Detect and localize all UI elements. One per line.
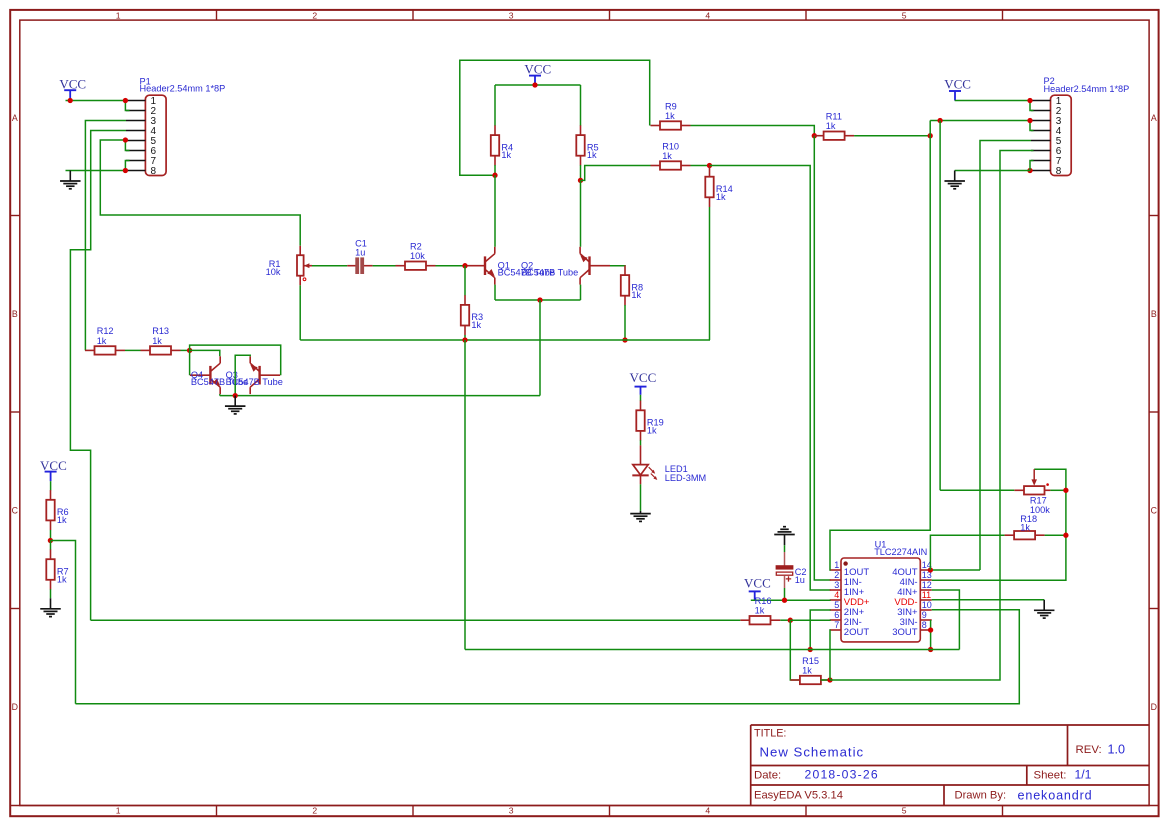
svg-text:EasyEDA V5.3.14: EasyEDA V5.3.14 [754,790,843,802]
svg-text:Header2.54mm 1*8P: Header2.54mm 1*8P [140,83,226,93]
svg-text:1u: 1u [795,575,805,585]
op-amp U1 body [841,558,920,642]
svg-text:1k: 1k [501,150,511,160]
wire R2 to Q1 base junction [436,265,466,267]
wire Q1 emitter to rail [494,285,496,300]
junction dots P2 [1027,98,1032,103]
wire R7 top [50,541,52,550]
wire loop to Q3 base [190,345,281,375]
transistor Q4 [209,366,211,385]
junction dots P1 [68,98,73,103]
wire R3 bottom to rail [464,335,466,340]
svg-text:D: D [1151,702,1157,712]
svg-text:1k: 1k [587,150,597,160]
junction dot R8 bottom [622,337,627,342]
ground (P2 pin8) [954,171,956,182]
op-amp U1 right pin leads [920,569,931,571]
title block outline [751,725,1149,806]
svg-text:B: B [1151,309,1157,319]
svg-text:R2: R2 [410,242,422,252]
wire junction down to R17 [939,121,941,491]
led LED1 triangle [633,465,648,475]
junction dot R9/R11/U1 1IN- [812,133,817,138]
svg-text:1: 1 [834,560,839,570]
svg-text:7: 7 [834,620,839,630]
junction dot C2/VDD+ [782,598,787,603]
svg-text:2: 2 [312,10,317,20]
connector P2 pin stubs [1031,100,1051,102]
wire junction to Q2 emitter [580,180,582,246]
svg-text:R15: R15 [802,656,819,666]
svg-text:6: 6 [834,610,839,620]
svg-text:Header2.54mm 1*8P: Header2.54mm 1*8P [1044,84,1130,94]
resistor R16 body [750,616,771,624]
wire 4OUT right up to P2 pin5 [980,141,1031,571]
svg-text:R16: R16 [755,596,772,606]
svg-text:5: 5 [834,600,839,610]
svg-text:3: 3 [509,806,514,816]
svg-text:1k: 1k [802,665,812,675]
resistor R2 [396,265,406,267]
wire R14 junction to U1 1IN+ [710,166,831,591]
svg-text:1u: 1u [355,247,365,257]
junction dot 3IN- bottom net [928,647,933,652]
svg-text:TLC2274AIN: TLC2274AIN [874,547,927,557]
ground (LED1) [640,511,642,514]
svg-text:12: 12 [922,580,932,590]
wire junction down to R15 [790,620,800,680]
junction dot R16/2IN- [788,618,793,623]
wire R1 wiper to C1 [312,265,347,267]
svg-text:1k: 1k [57,574,67,584]
wire junction to pin10 net [50,541,75,704]
wire Q4 emitter to rail [219,394,221,396]
wire LED to ground [640,484,642,511]
svg-text:1k: 1k [152,336,162,346]
resistor R14 [709,167,711,177]
svg-text:enekoandrd: enekoandrd [1018,788,1093,802]
transistor Q2 [588,256,590,275]
svg-text:4: 4 [705,10,710,20]
resistor R15 [790,679,800,681]
junction dot R18 right [1063,533,1068,538]
resistor R9 [651,125,661,127]
svg-text:New Schematic: New Schematic [760,745,865,760]
svg-text:VCC: VCC [944,76,971,91]
svg-text:LED-3MM: LED-3MM [665,473,706,483]
wire P1 pin3 net to R12 [85,121,126,351]
svg-text:5: 5 [902,10,907,20]
wire top loop [460,60,650,175]
wire P2 pin7 to pin8 jog [1030,161,1034,171]
wire R5 junction jog to R10 [581,166,651,181]
svg-text:1: 1 [116,806,121,816]
wire emitter rail [495,299,581,301]
ground (current mirror) [234,396,236,407]
wire VCC to P2 pin1 [955,100,1030,102]
wire R12 to R13 [125,349,141,351]
wire U1 1OUT net up-over [830,121,930,571]
junction dot R17 right [1063,488,1068,493]
wire Q3/Q4 bottom rail [220,395,540,397]
wire R1 bottom to rail [299,285,301,340]
junction dot Q1 base [462,263,467,268]
wire C2 to VDD+ junction [784,588,786,600]
svg-text:2: 2 [834,570,839,580]
wire U1 3IN- down [930,620,932,650]
svg-text:10k: 10k [410,251,425,261]
junction dot Q4 base/collector [187,348,192,353]
transistor Q1 [484,256,486,275]
wire ground to C2 [784,545,786,552]
svg-text:BC547B Tube: BC547B Tube [226,377,283,387]
connector P1 pin stubs [126,100,145,102]
wire VCC to R19 [640,395,642,401]
wire R13 to Q4 junction [181,349,190,351]
svg-text:Date:: Date: [754,770,781,782]
svg-text:11: 11 [922,590,931,600]
led LED1 light arrows [649,467,654,472]
svg-text:A: A [1151,113,1157,123]
wire P1 pin5 net to R1 top [100,140,300,246]
wire U1 VDD- to ground [932,599,1044,601]
connector P2 body [1051,95,1072,175]
connector P1 body [145,95,166,175]
capacitor C2 [784,552,786,566]
junction dot R15/2OUT [827,677,832,682]
wire junction to U1 2IN- [790,619,830,621]
svg-text:5: 5 [902,806,907,816]
svg-text:1k: 1k [97,336,107,346]
op-amp U1 pin1 marker dot [843,561,847,565]
wire U1 3IN+ long net [76,610,1020,704]
svg-text:1: 1 [116,10,121,20]
wire C1 to R2 [373,265,396,267]
wire P1 pin7 to pin8 jog [125,161,129,171]
svg-text:REV:: REV: [1076,744,1102,756]
svg-text:R9: R9 [665,101,677,111]
wire R3 junction down to bottom net [464,340,466,650]
wire P1 pin8 to ground [66,170,126,172]
svg-text:1.0: 1.0 [1108,742,1126,756]
potentiometer R1 [299,246,301,255]
resistor R6 [50,490,52,500]
resistor R11 [814,135,824,137]
svg-text:3: 3 [834,580,839,590]
svg-text:1k: 1k [631,290,641,300]
wire R19 to LED [640,440,642,445]
wire Q2 collector to rail [580,285,582,300]
resistor R5 [580,125,582,135]
svg-text:TITLE:: TITLE: [754,728,786,740]
svg-text:4: 4 [705,806,710,816]
wire R4 top [494,85,496,126]
svg-text:3OUT: 3OUT [892,627,918,638]
wire R17 left from P2 pin3 net [940,489,1014,491]
wire P2 pin1 to pin2 jog [1030,101,1034,111]
wire R6 bottom to junction [50,530,52,541]
resistor R18 [1005,534,1015,536]
wire bottom net up to U1 4IN+ [932,590,960,650]
wire P1 pin1 to pin2 jog [125,101,129,111]
resistor R10 [651,165,661,167]
junction dot R3 bottom [462,337,467,342]
led LED1 anode lead [640,445,642,464]
wire junction up to U1 2OUT [829,630,832,680]
junction dot R11 right [928,133,933,138]
svg-text:R10: R10 [662,141,679,151]
op-amp U1 left pin leads [830,569,841,571]
wire R16 left lead [740,619,749,621]
wire junction down to R3 [464,266,466,296]
wire U1 4OUT net [932,569,980,571]
resistor R7 [50,550,52,560]
svg-text:C: C [1151,505,1158,515]
svg-text:10k: 10k [266,267,281,277]
led LED1 cathode lead [640,475,642,484]
capacitor C1 [347,265,356,267]
frame row ticks left [10,215,20,217]
wire P2 pin3 net [930,120,1031,122]
resistor R8 [624,265,626,275]
wire P1 pin5 to pin6 jog [125,140,129,151]
wire Q2 base to R8 [610,265,625,268]
wire U1 4IN- to R17/R18 right [932,469,1066,580]
svg-text:R13: R13 [152,326,169,336]
wire Q3 emitter link to ground junction [235,355,250,395]
svg-text:R11: R11 [826,112,842,122]
svg-text:VCC: VCC [524,61,551,76]
wire U1 2IN+ down to bottom net [810,610,831,650]
svg-text:8: 8 [1056,166,1062,177]
junction dot mirror ground [233,393,238,398]
svg-text:B: B [12,309,18,319]
wire R16 to 2IN- junction [780,619,790,621]
wire bottom feedback net [465,649,959,651]
svg-text:1k: 1k [716,192,726,202]
svg-text:1k: 1k [755,606,765,616]
svg-text:10: 10 [922,600,932,610]
frame column ticks top [216,10,218,20]
wire VCC to R6 [50,481,52,490]
frame row ticks right [1149,215,1159,217]
junction dot P2 pin3 / R17 net [937,118,942,123]
wire R16 long net from P1 pin4 [91,619,741,621]
svg-text:2: 2 [312,806,317,816]
wire R4 bottom to junction [494,165,496,175]
svg-text:A: A [12,113,18,123]
wire R5 bottom to junction [580,165,582,180]
svg-text:1k: 1k [662,151,672,161]
svg-text:VCC: VCC [59,76,86,91]
wire R8 bottom to rail [624,305,626,340]
wire P2 pin3 to pin4 jog [1030,121,1034,131]
junction dot R4/Q1 collector [492,173,497,178]
svg-text:3: 3 [509,10,514,20]
svg-text:4: 4 [834,590,839,600]
ground (R7) [50,598,52,609]
svg-text:8: 8 [922,620,927,630]
junction dot R10/R14 [707,163,712,168]
wire junction to Q1 collector [494,175,496,247]
junction dot R6/R7 [48,538,53,543]
svg-text:BC547B Tube: BC547B Tube [521,268,578,278]
wire bottom rail R1-R14 [300,339,710,341]
resistor R3 [464,295,466,305]
svg-text:9: 9 [922,610,927,620]
wire rail down to Q3/Q4 rail [539,300,541,396]
svg-text:1k: 1k [826,121,836,131]
svg-text:8: 8 [151,166,157,177]
svg-text:2OUT: 2OUT [844,627,870,638]
junction dot 2IN+ bottom net [808,647,813,652]
junction dot VCC top [532,82,537,87]
wire R5 top [580,85,582,126]
wire VCC to U1 VDD+ [751,599,831,601]
frame bottom margin line [10,805,1158,807]
wire R15 right junction [821,679,830,681]
wire P2 pin8 to ground [955,170,1030,172]
wire junction down to U1 1IN- [814,136,830,580]
wire R11 to net node [854,135,930,137]
junction dot R5/Q2 [578,178,583,183]
junction dot emitter rail [537,297,542,302]
resistor R19 [640,401,642,411]
wire VCC rail R4-R5 [495,84,581,86]
svg-text:R12: R12 [97,326,114,336]
wire R17 right to junction [1050,489,1066,491]
potentiometer R17 [1014,489,1024,491]
wire R7 bottom to ground [50,589,52,598]
wire R9 to R11 junction [691,126,815,136]
svg-text:2018-03-26: 2018-03-26 [805,768,879,782]
resistor R12 [85,349,95,351]
ground (VDD-) [1043,600,1045,611]
svg-text:Drawn By:: Drawn By: [955,790,1007,802]
svg-text:1k: 1k [57,515,67,525]
wire VCC to P1 pin1 [66,100,126,102]
transistor Q3 [258,366,260,385]
svg-text:1/1: 1/1 [1075,768,1092,782]
wire R18 right to junction [1045,534,1066,536]
junction dot 3OUT [928,627,933,632]
svg-text:VCC: VCC [630,370,657,385]
svg-text:1k: 1k [1020,522,1030,532]
svg-text:VCC: VCC [744,575,771,590]
junction dot 4OUT [928,567,933,572]
resistor R16 right lead [771,619,781,621]
ground (P1 pin8) [69,171,71,182]
svg-text:Sheet:: Sheet: [1034,770,1067,782]
svg-text:1k: 1k [665,111,675,121]
resistor R4 [494,125,496,135]
svg-text:1k: 1k [471,320,481,330]
ground (above C2, inverted) [784,535,786,546]
wire P2 pin6 net to R15 [830,151,1034,681]
resistor R13 [141,349,151,351]
frame column ticks bottom [216,806,218,817]
wire junction to Q4 collector [190,350,220,356]
wire R10 to R14 junction [691,165,710,167]
wire 4OUT up to R18 row [930,535,1004,570]
wire R14 bottom to rail [709,207,711,340]
wire junction down to Q4 base [189,350,191,375]
svg-text:D: D [12,702,18,712]
svg-text:C: C [12,505,19,515]
wire P1 pin4 net down-left jogs [70,131,126,621]
svg-text:1k: 1k [647,425,657,435]
led LED1 cathode bar [632,474,648,476]
